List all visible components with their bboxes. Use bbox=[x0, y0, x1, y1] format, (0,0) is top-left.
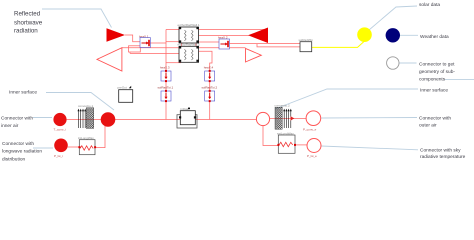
annotation text: Connector to get geometry of sub-components bbox=[419, 61, 455, 82]
svg-text:solRadWin: solRadWin bbox=[299, 38, 314, 42]
wire: column R box1-box2 bbox=[209, 81, 211, 91]
wire: down from inner surface node bbox=[95, 120, 105, 148]
callout line weather data bbox=[400, 34, 418, 36]
wire: heaX1 to node vertical bbox=[151, 42, 167, 44]
wire: bus right cluster bbox=[270, 118, 307, 120]
node outer surface left (hollow) bbox=[256, 112, 269, 125]
convection component outer bbox=[275, 107, 294, 129]
wire: circle C to intLongWave bbox=[68, 146, 80, 148]
callout line sky temperature bbox=[321, 146, 418, 150]
weather bus circle (navy) bbox=[386, 28, 400, 42]
callout line longwave bbox=[33, 147, 53, 149]
wire: loop stub bbox=[129, 52, 131, 53]
prescribed heat flow heaX.2 bbox=[219, 39, 230, 49]
svg-text:intLongWav: intLongWav bbox=[78, 136, 94, 140]
wire: to extSolRad1 top-left bbox=[166, 29, 180, 31]
wire: extSolRad1 top-right to right gain base bbox=[198, 29, 269, 31]
svg-text:outer air: outer air bbox=[419, 123, 437, 129]
svg-text:Weather data: Weather data bbox=[420, 34, 449, 40]
prescribed heat flow heaX.4 bbox=[205, 70, 215, 82]
convection component inner bbox=[78, 108, 94, 129]
wire: extLongWave to sky circle bbox=[295, 144, 307, 146]
callout line inner air bbox=[33, 117, 52, 119]
block intGai bbox=[180, 111, 195, 125]
yellow wire: solRadWin to solar bus bbox=[312, 42, 364, 48]
pin intGai left bbox=[179, 116, 181, 118]
geometry connector circle (hollow) bbox=[387, 57, 399, 69]
svg-text:convectio.2: convectio.2 bbox=[275, 103, 291, 107]
svg-text:convectio.1: convectio.1 bbox=[78, 104, 94, 108]
gain triangle K1 (filled, right) bbox=[107, 28, 126, 42]
marker preOut bbox=[129, 86, 131, 89]
marker intGai bbox=[188, 108, 190, 110]
node inner surface (filled, large) bbox=[101, 112, 116, 127]
wire: comp1-comp2 stub left bbox=[181, 43, 183, 46]
svg-text:geometry of sub-: geometry of sub- bbox=[419, 69, 455, 75]
node outer air (hollow) bbox=[306, 111, 321, 126]
svg-text:heaX.4: heaX.4 bbox=[204, 66, 214, 70]
gain triangle K3 (filled, left) bbox=[248, 28, 268, 44]
svg-text:radiation: radiation bbox=[14, 28, 38, 35]
solar bus circle (yellow) bbox=[357, 27, 372, 42]
svg-text:heaX.3: heaX.3 bbox=[160, 66, 170, 70]
wire: column L box2-bus bbox=[165, 101, 167, 120]
wire: gain output to heaX1 bbox=[125, 35, 140, 42]
svg-text:longwave radiation: longwave radiation bbox=[2, 149, 42, 155]
annotation text: Connector with outer air bbox=[419, 116, 451, 129]
wire: solRadWin lower pair bbox=[257, 44, 300, 47]
svg-text:shortwave: shortwave bbox=[14, 19, 43, 26]
block preOut bbox=[119, 90, 133, 103]
callout line solar data bbox=[369, 6, 417, 30]
wire: node vertical left bus bbox=[165, 30, 167, 72]
callout line to gain triangle bbox=[42, 9, 112, 28]
svg-text:solar data: solar data bbox=[419, 2, 440, 8]
wire: main thermal bus bbox=[67, 119, 257, 121]
svg-text:radiative temperature: radiative temperature bbox=[420, 154, 466, 160]
wire: down from outer node bbox=[263, 126, 278, 146]
prescribed heat flow solRadToi.2 bbox=[205, 90, 215, 102]
radiation component extSolRadWall.1 bbox=[179, 27, 199, 43]
node T_conv_i (inner air, filled) bbox=[53, 113, 66, 126]
svg-text:Inner surface: Inner surface bbox=[9, 90, 37, 96]
prescribed heat flow heaX.3 bbox=[161, 70, 171, 82]
svg-text:distribution: distribution bbox=[2, 156, 26, 162]
wire: loop rectangle bbox=[129, 46, 141, 52]
svg-text:Connector with: Connector with bbox=[419, 116, 451, 122]
wire: heaX2 to solRadWin upper bbox=[230, 43, 301, 45]
svg-text:Reflected: Reflected bbox=[14, 11, 41, 18]
wire: column L box1-box2 bbox=[165, 81, 167, 91]
svg-text:P_lw_i: P_lw_i bbox=[54, 154, 63, 158]
thermal resistor intLongWave bbox=[78, 140, 96, 155]
gain triangle K2 (hollow, left) bbox=[97, 48, 122, 71]
prescribed heat flow solRadToi.1 bbox=[161, 90, 171, 102]
svg-text:P_conv_e: P_conv_e bbox=[303, 128, 317, 132]
svg-text:Connector with: Connector with bbox=[2, 141, 34, 147]
thermal resistor extLongWave bbox=[277, 135, 296, 153]
svg-text:T_conv_i: T_conv_i bbox=[54, 128, 67, 132]
svg-text:P_lw_e: P_lw_e bbox=[307, 154, 317, 158]
prescribed heat flow heaX.1 bbox=[140, 38, 150, 48]
wire: extSolRad2 mid-right to column R bbox=[198, 51, 213, 71]
svg-text:Inner surface: Inner surface bbox=[420, 88, 448, 94]
svg-text:Connector to get: Connector to get bbox=[419, 61, 455, 67]
pin intGai right bbox=[194, 116, 196, 118]
wire: extSolRad2 top-right to hollow triangle right bbox=[198, 47, 246, 49]
svg-text:solRadToi.2: solRadToi.2 bbox=[202, 86, 218, 90]
svg-text:solRadToi.1: solRadToi.1 bbox=[158, 86, 174, 90]
wire: comp1-comp2 stub right bbox=[195, 43, 197, 46]
wire: extSolRad1 bottom-right to heaX2 bbox=[198, 41, 220, 43]
svg-text:inner air: inner air bbox=[1, 123, 19, 129]
callout line geometry connector bbox=[399, 62, 417, 64]
wire: column R box2-bus bbox=[209, 101, 211, 120]
svg-text:Connector with sky: Connector with sky bbox=[420, 148, 461, 154]
svg-text:components: components bbox=[419, 77, 446, 83]
wire: extSolRad2 mid-left loop bbox=[130, 52, 180, 54]
block solRadWin bbox=[300, 42, 312, 52]
node P_lw_i (longwave, filled) bbox=[54, 139, 68, 153]
callout line inner surface left bbox=[46, 93, 114, 111]
gain triangle K4 (hollow, right) bbox=[246, 48, 262, 62]
annotation text: Connector with inner air bbox=[1, 115, 33, 129]
radiation component extSolRadWall.2 bbox=[179, 46, 199, 62]
callout line outer air bbox=[321, 117, 417, 120]
wire: hollow triangle left to extSolRad2 top-left bbox=[122, 47, 180, 49]
wire: right gain apex feed bbox=[198, 35, 249, 37]
wire: to extSolRad1 bottom-left bbox=[166, 41, 180, 43]
annotation text: Connector with longwave radiation distribution bbox=[2, 141, 42, 163]
svg-text:preOut: preOut bbox=[118, 85, 127, 89]
svg-text:Connector with: Connector with bbox=[1, 115, 33, 121]
annotation text: Reflected shortwave radiation bbox=[14, 11, 43, 35]
callout stub right of components bbox=[445, 78, 474, 80]
wire: extSolRad2 bottom-left to column L bbox=[166, 62, 181, 64]
block intGai shadow bbox=[177, 115, 197, 128]
node sky temperature (hollow) bbox=[307, 139, 321, 153]
callout line inner surface right bbox=[275, 89, 418, 109]
annotation text: Connector with sky radiative temperature bbox=[420, 148, 466, 160]
